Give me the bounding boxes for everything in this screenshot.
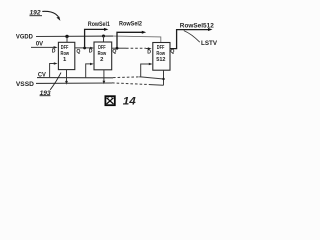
flip-flop U2 DFF Row 2 bbox=[94, 42, 112, 70]
svg-text:VSSD: VSSD bbox=[16, 81, 34, 88]
wire VSSD rail dashed continuation bbox=[112, 83, 151, 85]
wire VSS drop Row 2 to VSSD rail bbox=[103, 70, 105, 82]
svg-text:D: D bbox=[89, 49, 93, 55]
wire Q1 to D2 bbox=[75, 47, 91, 49]
svg-text:2: 2 bbox=[100, 57, 104, 63]
wire clock input Row 1 from CV rail bbox=[50, 64, 55, 78]
svg-text:VGDD: VGDD bbox=[16, 33, 33, 40]
net label LSTV with leader bbox=[184, 31, 218, 47]
wire VSS drop Row 1 with arrow to VSSD rail bbox=[66, 70, 68, 82]
wire VGDD drop to Row 1 bbox=[66, 36, 68, 42]
figure callout 193 bbox=[40, 73, 61, 97]
wire clock input Row 2 from CV rail bbox=[86, 64, 92, 78]
svg-text:Q: Q bbox=[112, 49, 116, 55]
wire VGDD rail (right thin, corner down into DFF Row 512) bbox=[113, 36, 161, 43]
svg-text:LSTV: LSTV bbox=[201, 40, 217, 47]
svg-text:Row: Row bbox=[98, 51, 107, 57]
svg-text:0V: 0V bbox=[36, 40, 44, 47]
wire VGDD rail (left solid) bbox=[36, 35, 113, 37]
wire VGDD drop to Row 2 bbox=[103, 36, 105, 42]
svg-text:Q: Q bbox=[76, 49, 80, 55]
junction dot Q1 riser bbox=[83, 47, 86, 50]
wire CV rail (left solid) bbox=[37, 77, 113, 79]
wire 0V input to D of Row 1 bbox=[31, 46, 55, 48]
wire RowSel2 output with arrow bbox=[117, 32, 143, 48]
svg-text:1: 1 bbox=[63, 57, 67, 63]
wire CV rail right end to Row 512 bbox=[139, 77, 163, 79]
svg-text:D: D bbox=[147, 50, 151, 56]
figure caption 図 14 bbox=[105, 96, 135, 108]
flip-flop U3 DFF Row 512 bbox=[153, 43, 170, 71]
wire RowSel512 output with arrow bbox=[170, 30, 209, 49]
flip-flop U1 DFF Row 1 bbox=[58, 42, 74, 69]
svg-text:14: 14 bbox=[123, 96, 136, 108]
svg-text:RowSel512: RowSel512 bbox=[180, 22, 214, 29]
junction dot VGDD to Row 1 bbox=[65, 35, 68, 38]
wire Q2 (solid then dashed continuation) bbox=[112, 47, 126, 49]
svg-text:512: 512 bbox=[156, 57, 166, 63]
wire CV rail dashed continuation bbox=[113, 76, 139, 79]
svg-text:RowSel2: RowSel2 bbox=[119, 20, 142, 27]
wire VSS drop Row 512 bbox=[163, 70, 165, 85]
wire VSSD rail (left solid) bbox=[36, 82, 112, 84]
svg-text:Q: Q bbox=[170, 49, 174, 55]
svg-text:D: D bbox=[52, 49, 56, 55]
svg-text:RowSel1: RowSel1 bbox=[88, 21, 110, 28]
figure callout 192 bbox=[30, 10, 61, 21]
svg-text:Row: Row bbox=[61, 51, 70, 57]
wire clock input Row 512 from CV rail bbox=[141, 64, 150, 77]
junction dot CV at Row 512 drop bbox=[162, 78, 164, 80]
svg-text:Row: Row bbox=[156, 51, 165, 57]
wire RowSel1 output with arrow bbox=[85, 29, 106, 48]
wire VSSD rail right end bbox=[151, 84, 164, 87]
junction dot Q2 riser bbox=[116, 47, 119, 50]
junction dot VGDD to Row 2 bbox=[102, 35, 105, 38]
